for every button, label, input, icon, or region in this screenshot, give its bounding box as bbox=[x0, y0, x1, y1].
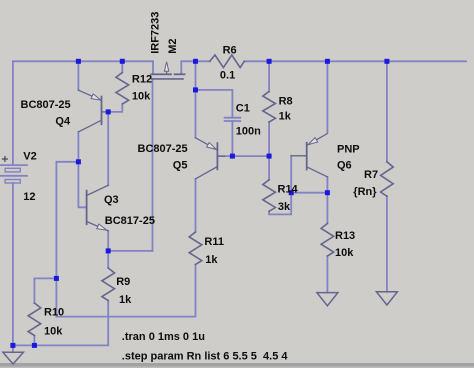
wire top rail middle segment (MOSFET drain to R6) bbox=[181, 60, 210, 62]
svg-text:R12: R12 bbox=[132, 74, 152, 86]
junction feedback node / R10 bbox=[54, 276, 59, 281]
wire M2 drain stub bbox=[180, 61, 182, 73]
wire M2 gate column bbox=[152, 79, 154, 251]
pmos M2 arrow bbox=[164, 62, 168, 72]
wire C1 top branch bbox=[196, 90, 233, 118]
wire R13 bottom lead to ground bbox=[326, 256, 328, 293]
svg-text:BC817-25: BC817-25 bbox=[105, 215, 155, 227]
resistor R14 zigzag bbox=[263, 180, 276, 212]
wire Q6 base-collector tie bbox=[291, 192, 327, 194]
resistor R7 zigzag bbox=[381, 162, 394, 196]
junction R8 / R14 / base bus bbox=[267, 154, 272, 159]
svg-text:M2: M2 bbox=[167, 39, 179, 54]
resistor R9 zigzag bbox=[102, 268, 115, 301]
pnp transistor Q5 body bbox=[196, 138, 225, 179]
wire feedback column down bbox=[55, 162, 57, 279]
svg-text:R8: R8 bbox=[279, 95, 293, 107]
pnp transistor Q4 body bbox=[78, 90, 108, 132]
wire Q6 base drop bbox=[290, 156, 292, 193]
junction C1 branch bbox=[193, 87, 198, 92]
wire Q5 collector to R11 top bbox=[195, 179, 197, 232]
resistor R12 zigzag bbox=[116, 73, 129, 105]
junction Q6 base tie bbox=[289, 190, 294, 195]
wire base bus Q5 to R8 junction bbox=[218, 155, 269, 157]
svg-text:R13: R13 bbox=[335, 230, 355, 242]
wire Q4 emitter to top rail bbox=[77, 61, 79, 90]
voltage source V2 battery symbol bbox=[1, 165, 27, 183]
wire R8 bottom lead bbox=[268, 122, 270, 156]
wire R14 top lead bbox=[268, 156, 270, 180]
svg-text:R10: R10 bbox=[44, 307, 64, 319]
svg-text:100n: 100n bbox=[236, 126, 261, 138]
wire R12 top lead bbox=[121, 61, 123, 72]
wire Q4 collector lead bbox=[77, 132, 79, 162]
wire M2 source stub bbox=[152, 61, 154, 73]
svg-text:R9: R9 bbox=[116, 276, 130, 288]
svg-text:10k: 10k bbox=[132, 91, 151, 103]
wire ground stub at V2 bbox=[12, 345, 14, 352]
ground at V2 bbox=[3, 352, 24, 364]
pmos transistor M2 body bbox=[151, 71, 184, 79]
svg-text:1k: 1k bbox=[205, 254, 218, 266]
junction R10 bottom bbox=[32, 343, 37, 348]
svg-text:3k: 3k bbox=[278, 201, 291, 213]
svg-text:Q4: Q4 bbox=[55, 115, 71, 127]
junction Q4 base node bbox=[106, 109, 111, 114]
junction C1 bottom / base bus bbox=[230, 154, 235, 159]
junction Q6 collector / R13 bbox=[325, 190, 330, 195]
wire R8 top lead bbox=[268, 61, 270, 91]
wire top rail left segment bbox=[13, 60, 153, 62]
resistor R10 zigzag bbox=[28, 303, 41, 336]
resistor R13 zigzag bbox=[321, 224, 334, 257]
svg-text:Q6: Q6 bbox=[337, 160, 352, 172]
wire node B to M2 gate column bbox=[108, 250, 152, 252]
wire R7 bottom lead to ground bbox=[386, 196, 388, 292]
svg-text:1k: 1k bbox=[279, 110, 292, 122]
svg-text:.tran 0 1ms 0 1u: .tran 0 1ms 0 1u bbox=[122, 331, 205, 343]
capacitor C1 plates bbox=[225, 118, 241, 121]
wire V2 positive lead from top rail bbox=[12, 61, 14, 165]
wire V2 negative lead down to bottom rail bbox=[12, 183, 14, 345]
wire Q3 emitter down to node B bbox=[107, 231, 109, 251]
svg-text:10k: 10k bbox=[44, 325, 63, 337]
wire Q3 base lead bbox=[78, 162, 86, 208]
svg-text:C1: C1 bbox=[236, 103, 250, 115]
window bottom edge band bbox=[0, 363, 474, 367]
svg-text:Q5: Q5 bbox=[173, 159, 188, 171]
wire R7 top lead from rail bbox=[386, 61, 388, 162]
plus sign of V2 bbox=[3, 157, 8, 162]
npn transistor Q3 body bbox=[87, 185, 109, 231]
junction top rail / R12 bbox=[120, 59, 125, 64]
wire Q5 emitter to top rail bbox=[195, 61, 197, 138]
wire R9 top lead bbox=[107, 251, 109, 268]
svg-text:{Rn}: {Rn} bbox=[353, 186, 377, 198]
junction Q4 collector node A bbox=[76, 159, 81, 164]
Q5 emitter arrow bbox=[207, 143, 217, 150]
junction Q3 emitter node B bbox=[106, 248, 111, 253]
resistor R8 zigzag bbox=[263, 92, 276, 123]
wire R13 top lead bbox=[326, 193, 328, 224]
svg-text:1k: 1k bbox=[119, 294, 132, 306]
junction top rail / Q4 emitter bbox=[76, 59, 81, 64]
svg-text:IRF7233: IRF7233 bbox=[150, 12, 162, 54]
wire C1 bottom lead bbox=[231, 121, 233, 156]
svg-text:V2: V2 bbox=[23, 151, 36, 163]
junction top rail / R7 bbox=[384, 59, 389, 64]
wire Q6 collector lead bbox=[326, 177, 328, 193]
wire top rail right segment (R6 to right edge) bbox=[244, 60, 466, 62]
wire Q4 base node down to Q3 collector bbox=[107, 112, 109, 185]
svg-text:0.1: 0.1 bbox=[220, 70, 235, 82]
wire bottom ground rail bbox=[13, 301, 108, 346]
wire R10 top branch bbox=[34, 278, 56, 303]
svg-text:.step param Rn list 6 5.5 5 4: .step param Rn list 6 5.5 5 4.5 4 bbox=[122, 351, 289, 363]
svg-text:BC807-25: BC807-25 bbox=[138, 143, 188, 155]
ground at R13 bbox=[317, 293, 338, 306]
svg-text:R11: R11 bbox=[204, 236, 224, 248]
junction top rail / R8 bbox=[267, 59, 272, 64]
pnp transistor Q6 body bbox=[291, 134, 327, 177]
wire R14 bottom return bbox=[269, 193, 291, 215]
Q4 emitter arrow bbox=[91, 94, 101, 100]
svg-text:12: 12 bbox=[23, 191, 35, 203]
svg-text:PNP: PNP bbox=[337, 143, 360, 155]
wire R11 bottom return to feedback node bbox=[56, 265, 195, 317]
junction bottom rail / ground bbox=[10, 343, 15, 348]
svg-text:BC807-25: BC807-25 bbox=[21, 99, 71, 111]
Q6 emitter arrow bbox=[308, 138, 318, 145]
ground at R7 bbox=[376, 292, 397, 305]
Q3 emitter arrow bbox=[97, 224, 107, 230]
svg-text:R6: R6 bbox=[223, 45, 237, 57]
wire node A feedback left branch bbox=[56, 161, 78, 163]
resistor R11 zigzag bbox=[189, 232, 202, 265]
junction top rail / Q6 emitter bbox=[325, 59, 330, 64]
wire R12 bottom lead to Q4 base node bbox=[108, 104, 122, 112]
svg-text:R14: R14 bbox=[278, 183, 299, 195]
wire Q6 emitter to top rail bbox=[326, 61, 328, 132]
svg-text:Q3: Q3 bbox=[104, 194, 119, 206]
wire R10 bottom lead bbox=[33, 336, 35, 346]
svg-text:10k: 10k bbox=[335, 247, 354, 259]
svg-text:R7: R7 bbox=[364, 169, 378, 181]
resistor R6 zigzag bbox=[210, 55, 245, 68]
junction top rail / Q5 emitter bbox=[193, 59, 198, 64]
